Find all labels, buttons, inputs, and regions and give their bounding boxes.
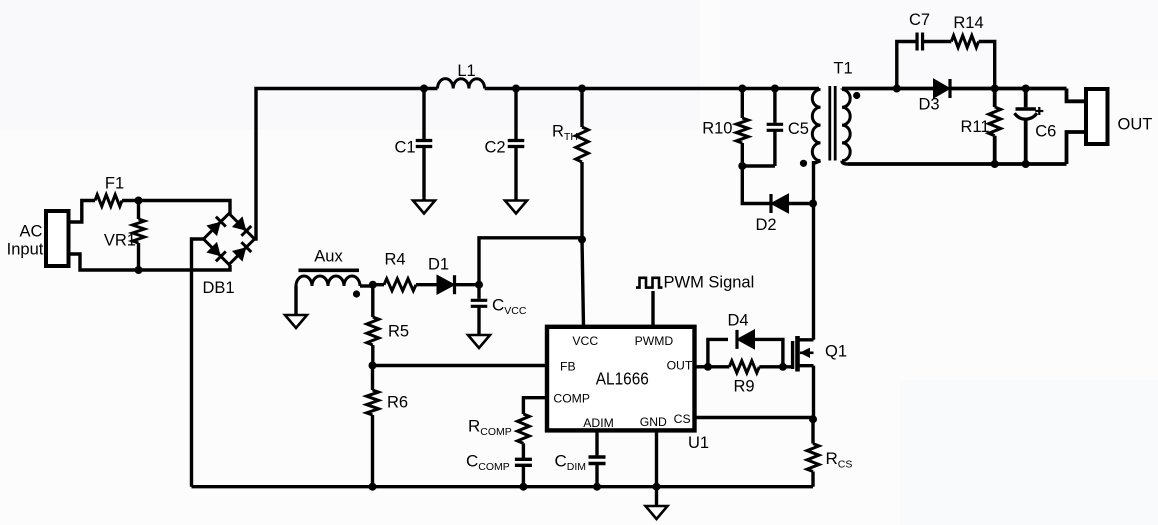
inductor L1 [438,79,485,89]
svg-text:R4: R4 [384,251,405,269]
junction R11 top [991,85,999,93]
wire D2 to drain [789,202,814,205]
resistor R14 [951,36,978,48]
label PWM Signal [664,274,755,292]
ground C1 [413,201,435,214]
label AL1666 [596,369,649,389]
junction VR1 bottom [135,266,143,274]
label D2 [755,216,776,234]
junction D1/CVCC [475,281,483,289]
label D4 [727,312,748,330]
pin label CS [674,412,691,426]
wire RTH to VCC pin [582,240,584,327]
aux core bar [299,268,360,272]
primary phase dot [800,160,807,167]
fuse F1 [95,195,122,207]
wire F1 to bridge top [122,201,230,215]
capacitor CDIM [589,457,606,464]
svg-text:VCC: VCC [572,334,598,348]
wire out top corner [1067,89,1087,102]
wire COMP pin [523,398,547,414]
wire CDIM bottom [595,464,598,487]
wire R10 down to D2 [742,166,771,204]
wire secondary top [842,89,934,90]
op-amp U1 AL1666 box [547,327,695,431]
svg-text:OUT: OUT [1118,115,1153,133]
PWM waveform glyph [636,278,663,288]
pin label COMP [553,392,590,406]
junction R5/R6/FB [369,362,377,370]
pin label OUT [667,359,693,373]
wire CVCC top link [479,238,582,285]
capacitor CCOMP [515,459,532,465]
junction C2 top [512,85,520,93]
svg-text:PWM Signal: PWM Signal [664,274,755,292]
aux winding [296,276,360,315]
label OUT [1118,115,1153,133]
junction R10 bottom [738,162,746,170]
label R4 [384,251,405,269]
resistor R6 [367,366,379,487]
wire bridge minus stub [192,239,204,487]
svg-text:R6: R6 [387,394,408,412]
svg-text:ADIM: ADIM [583,416,613,430]
label VR1 [104,232,136,250]
pin label FB [560,360,576,374]
resistor R11 [989,89,1001,165]
label R14 [953,14,983,32]
label R10 [702,120,732,138]
junction C6 top [1022,85,1030,93]
wire R9 left [708,365,729,368]
svg-text:D3: D3 [918,96,939,114]
svg-text:R11: R11 [960,118,989,136]
transformer secondary winding [842,90,850,165]
svg-text:OUT: OUT [667,359,693,373]
label RCS [826,449,853,471]
label C5 [788,120,809,138]
label R6 [387,394,408,412]
svg-text:C5: C5 [788,120,809,138]
wire snubber down-right [979,42,995,89]
resistor R4 [384,279,416,291]
svg-text:R14: R14 [953,14,983,32]
svg-text:PWMD: PWMD [635,334,674,348]
label C1 [394,139,415,157]
wire CS pin [695,416,814,419]
wire R9 to gate [759,365,791,368]
capacitor C6 [1015,89,1044,165]
wire secondary bottom [848,162,1067,166]
junction R6 bottom [369,483,377,491]
svg-text:D1: D1 [428,256,449,274]
ground GND pin [646,506,668,519]
svg-text:R9: R9 [733,378,754,396]
label R5 [388,323,409,341]
pin label PWMD [635,334,674,348]
svg-text:C7: C7 [909,11,930,29]
junction CDIM rail [593,483,601,491]
wire FB [373,364,548,367]
svg-text:T1: T1 [833,60,852,78]
wire D3 to out node [950,87,1067,91]
junction R9/D4 [779,363,787,371]
label D1 [428,256,449,274]
wire C7 to R14 [923,40,952,43]
diode D2 [771,194,789,213]
svg-text:GND: GND [640,415,667,429]
diode D1 [437,275,455,294]
wire Q1 source down [812,366,815,420]
svg-text:R5: R5 [388,323,409,341]
AC input connector [46,211,69,266]
resistor RCS [807,419,819,487]
junction C1 top [420,85,428,93]
OUT connector [1086,89,1108,144]
resistor RTH [576,89,589,240]
svg-text:R10: R10 [702,120,732,138]
label CVCC [492,296,527,318]
pin label GND [640,415,667,429]
wire bottom rail [192,485,814,488]
wire ADIM pin [595,430,598,455]
wire R10/C5 bottom link [742,164,775,167]
junction CS/RCS [809,415,817,423]
junction RTH top [578,85,586,93]
wire R4 left [373,283,384,286]
label D3 [918,96,939,114]
varistor VR1 [133,201,145,271]
label F1 [105,175,124,193]
svg-text:U1: U1 [688,434,709,452]
wire AC hot stub [69,201,96,223]
junction C6 bottom [1022,160,1030,168]
wire R4 to D1 [416,283,437,286]
wire bridge plus to top rail [255,89,438,240]
junction R11 bottom [991,160,999,168]
ground CVCC [468,335,490,348]
junction F1/VR1 top [135,197,143,205]
wire RCOMP to CCOMP [522,443,525,458]
pin label ADIM [583,416,613,430]
junction RTH/CVCC [578,236,586,244]
svg-text:FB: FB [560,360,576,374]
transistor Q1 [793,336,814,372]
resistor R10 [736,89,748,167]
svg-text:C6: C6 [1035,123,1056,141]
wire Q1 drain up [812,161,815,340]
wire CCOMP bottom [522,465,525,486]
resistor RCOMP [517,414,529,443]
svg-text:F1: F1 [105,175,124,193]
svg-text:L1: L1 [457,62,475,80]
pin label VCC [572,334,598,348]
junction CCOMP rail [519,483,527,491]
svg-text:VR1: VR1 [104,232,136,250]
junction R10 top [738,85,746,93]
svg-text:AL1666: AL1666 [596,369,649,389]
label Aux [314,248,343,266]
label C6 [1035,123,1056,141]
svg-text:Q1: Q1 [825,343,847,361]
label U1 [688,434,709,452]
label DB1 [202,279,234,297]
svg-text:DB1: DB1 [202,279,234,297]
label C7 [909,11,930,29]
label Q1 [825,343,847,361]
transformer core [830,86,835,161]
wire out bottom corner [1067,132,1087,164]
svg-text:CS: CS [674,412,691,426]
label CDIM [555,452,587,474]
capacitor C5 [767,89,784,167]
svg-text:AC: AC [20,223,43,241]
label R9 [733,378,754,396]
label CCOMP [466,452,510,474]
junction D2/drain [809,200,817,208]
label C2 [484,139,505,157]
junction C5 top [771,85,779,93]
label RCOMP [468,417,512,439]
transformer primary winding [812,90,820,164]
wire aux to R4 junction [360,285,373,286]
secondary phase dot [853,92,860,99]
label T1 [833,60,852,78]
capacitor C2 [508,89,525,201]
ground C2 [505,201,527,214]
bridge rectifier DB1 [204,214,255,265]
junction snubber left [893,85,901,93]
junction OUT [704,363,712,371]
wire AC neutral [69,254,231,270]
wire snubber up-left [897,42,917,89]
diode D4 [737,330,755,349]
svg-text:Input: Input [7,241,44,259]
wire GND pin [655,430,658,506]
junction Aux/R4/R5 [369,281,377,289]
resistor R9 [729,361,759,373]
wire D1 to CVCC [455,283,480,286]
capacitor CVCC [471,285,488,335]
label L1 [457,62,475,80]
label RTH [552,123,578,144]
capacitor C7 [917,33,923,51]
svg-text:C1: C1 [394,139,415,157]
svg-text:COMP: COMP [553,392,590,406]
aux phase dot [353,290,360,297]
wire OUT pin [695,365,708,368]
wire top rail mid [485,87,819,90]
svg-text:C2: C2 [484,139,505,157]
label AC Input [7,223,44,259]
svg-text:Aux: Aux [314,248,343,266]
label R11 [960,118,989,136]
diode D3 [934,79,951,98]
svg-text:D2: D2 [755,216,776,234]
wire D4 branch down [755,339,783,366]
svg-text:D4: D4 [727,312,748,330]
capacitor C1 [416,89,433,201]
junction GND rail [653,483,661,491]
wire PWMD pin [651,291,654,327]
wire D4 branch up [708,339,728,366]
ground Aux [285,315,307,328]
resistor R5 [367,285,379,366]
